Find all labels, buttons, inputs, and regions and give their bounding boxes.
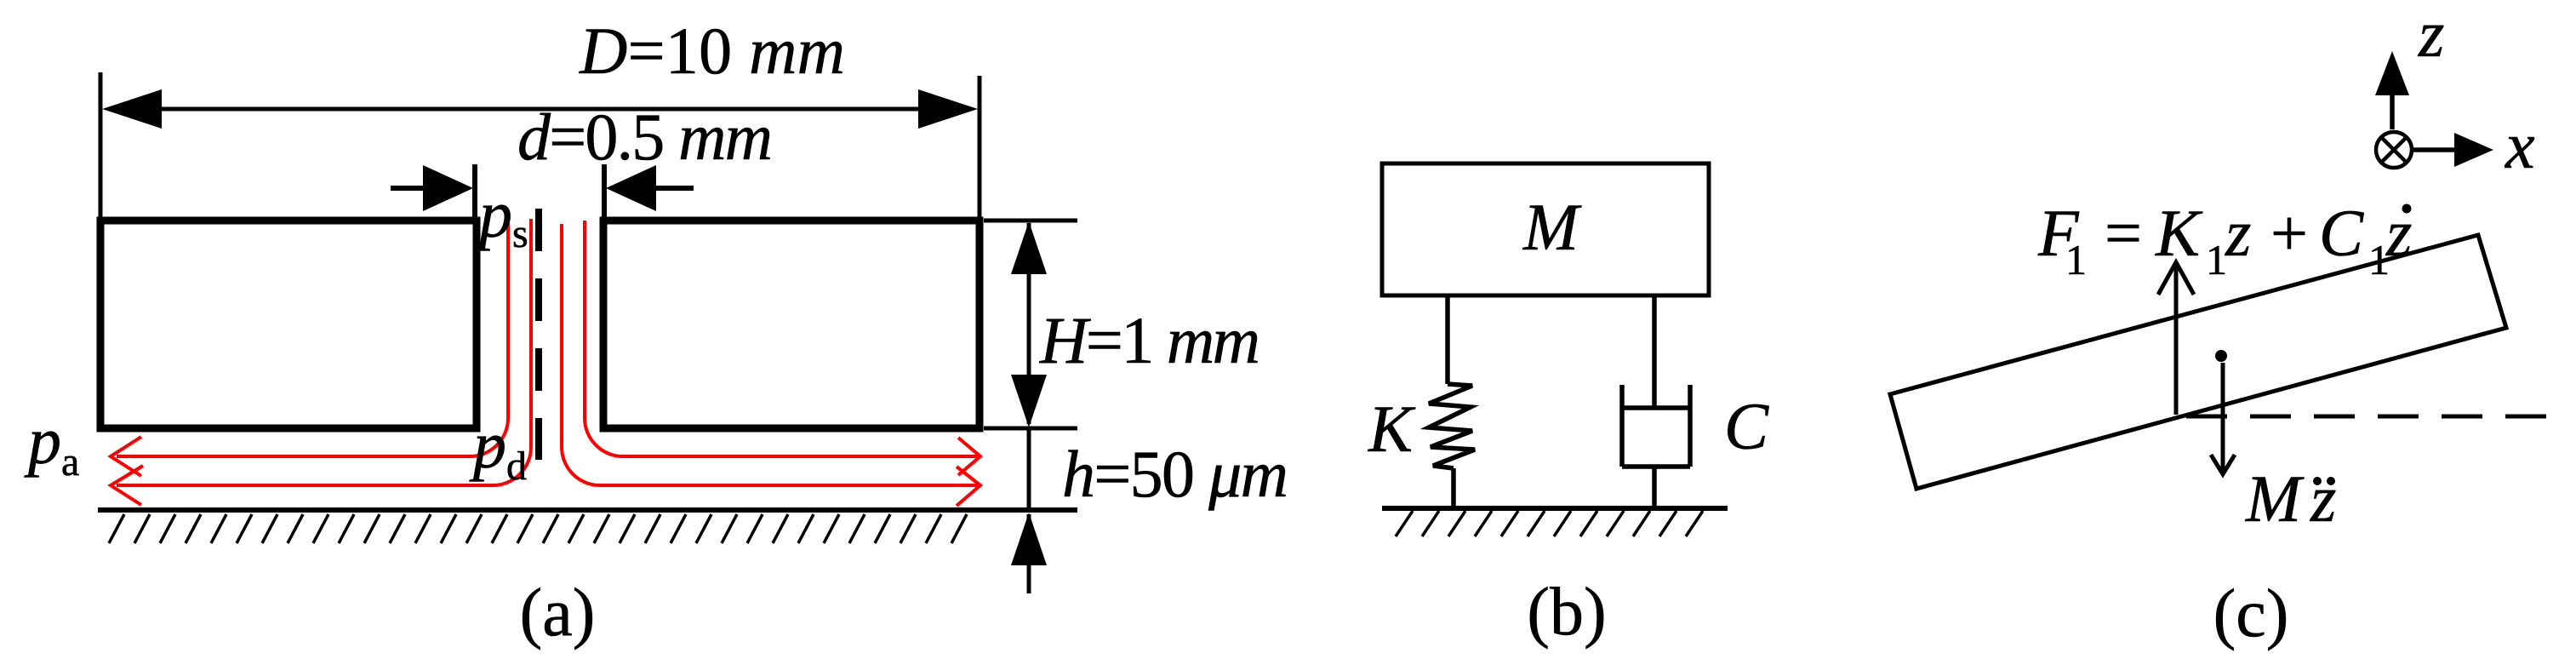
ground hatching (a) <box>109 514 967 543</box>
svg-text:p: p <box>24 404 61 478</box>
svg-text:K: K <box>2155 196 2203 270</box>
left bearing block <box>100 221 477 428</box>
svg-text:(c): (c) <box>2213 576 2289 651</box>
flow line left outer <box>117 223 508 456</box>
arrowhead D left <box>102 89 162 129</box>
flow arrowhead right upper <box>958 438 980 475</box>
formula F1 = K1z + C1z-dot <box>2037 196 2412 284</box>
extension line bottom right <box>984 427 1077 431</box>
mass block M <box>1382 163 1709 295</box>
damper cylinder left wall <box>1619 385 1625 467</box>
svg-text:d=0.5 mm: d=0.5 mm <box>517 100 773 174</box>
d dimension right arrow shaft <box>654 186 694 191</box>
ground hatching (b) <box>1396 511 1703 536</box>
inertia force arrow shaft (down) <box>2221 363 2225 472</box>
svg-text:(a): (a) <box>520 576 596 650</box>
right bearing block <box>603 221 980 428</box>
svg-text:s: s <box>512 211 528 256</box>
dashed reference line <box>2186 415 2550 419</box>
H arrowhead down <box>1011 375 1047 427</box>
damper top rod <box>1652 295 1657 408</box>
damper bottom rod <box>1652 467 1657 508</box>
dimension line D <box>128 107 952 112</box>
svg-text:p: p <box>469 408 506 482</box>
d dimension tick right <box>602 164 607 222</box>
svg-text:h=50 μm: h=50 μm <box>1062 437 1288 511</box>
svg-text:C: C <box>2319 196 2364 270</box>
ground line (a) <box>98 507 1077 513</box>
extension line right for D dimension <box>978 76 982 221</box>
tilted beam <box>1890 235 2506 489</box>
damper piston plate <box>1622 405 1690 410</box>
flow line right outer <box>585 221 979 456</box>
extension line top right <box>984 219 1077 223</box>
damper cylinder bottom <box>1622 464 1690 469</box>
d arrowhead left (points right) <box>423 165 473 211</box>
d arrowhead right (points left) <box>606 165 656 211</box>
svg-text:M: M <box>1522 190 1582 264</box>
svg-text:1: 1 <box>2206 236 2227 284</box>
spring bottom rod <box>1451 468 1456 508</box>
flow arrowhead left lower <box>111 466 143 505</box>
damper cylinder right wall <box>1688 385 1693 467</box>
d dimension tick left <box>472 164 477 222</box>
svg-text:M: M <box>2245 461 2305 536</box>
svg-text:+: + <box>2270 196 2308 270</box>
H dimension shaft <box>1027 223 1031 424</box>
dot over z in formula <box>2402 204 2412 214</box>
spring K zigzag <box>1429 384 1475 468</box>
origin symbol (circle with x) <box>2376 132 2412 168</box>
svg-text:(b): (b) <box>1527 575 1606 650</box>
svg-text:C: C <box>1724 389 1769 463</box>
svg-text:1: 1 <box>2065 236 2087 284</box>
below-ground arrowhead up <box>1011 513 1047 565</box>
svg-text:H=1 mm: H=1 mm <box>1039 303 1260 377</box>
x axis shaft <box>2413 147 2454 152</box>
d dimension left arrow shaft <box>391 186 430 191</box>
arrowhead D right <box>918 89 978 129</box>
svg-text:D=10 mm: D=10 mm <box>579 14 845 88</box>
z axis shaft <box>2390 90 2395 129</box>
umlaut dots over z <box>2313 477 2322 485</box>
spring top rod <box>1445 295 1450 384</box>
orifice centerline (dashed) <box>535 209 542 460</box>
H arrowhead up <box>1011 221 1047 274</box>
flow line left inner <box>117 219 531 485</box>
center of mass dot <box>2215 350 2227 362</box>
force F1 arrow shaft (up) <box>2174 264 2179 415</box>
x axis arrowhead <box>2454 133 2493 167</box>
flow line right inner <box>562 224 979 485</box>
force F1 arrowhead (open) <box>2158 262 2194 295</box>
below-ground arrow shaft <box>1027 514 1031 593</box>
z axis arrowhead <box>2375 51 2409 95</box>
svg-text:=: = <box>2105 196 2142 270</box>
svg-text:K: K <box>1368 392 1416 466</box>
svg-text:d: d <box>506 444 527 489</box>
svg-text:p: p <box>475 177 512 251</box>
h leader line <box>1027 428 1031 510</box>
extension line left for D dimension <box>99 72 103 221</box>
flow arrowhead right lower <box>957 467 980 506</box>
svg-text:a: a <box>61 439 79 484</box>
flow arrowhead left upper <box>111 437 141 476</box>
inertia force arrowhead (open) <box>2211 455 2235 474</box>
svg-text:z: z <box>2310 461 2336 536</box>
ground line (b) <box>1382 506 1728 511</box>
svg-text:z: z <box>2418 0 2444 71</box>
svg-text:z: z <box>2225 196 2251 270</box>
svg-text:x: x <box>2505 108 2535 182</box>
